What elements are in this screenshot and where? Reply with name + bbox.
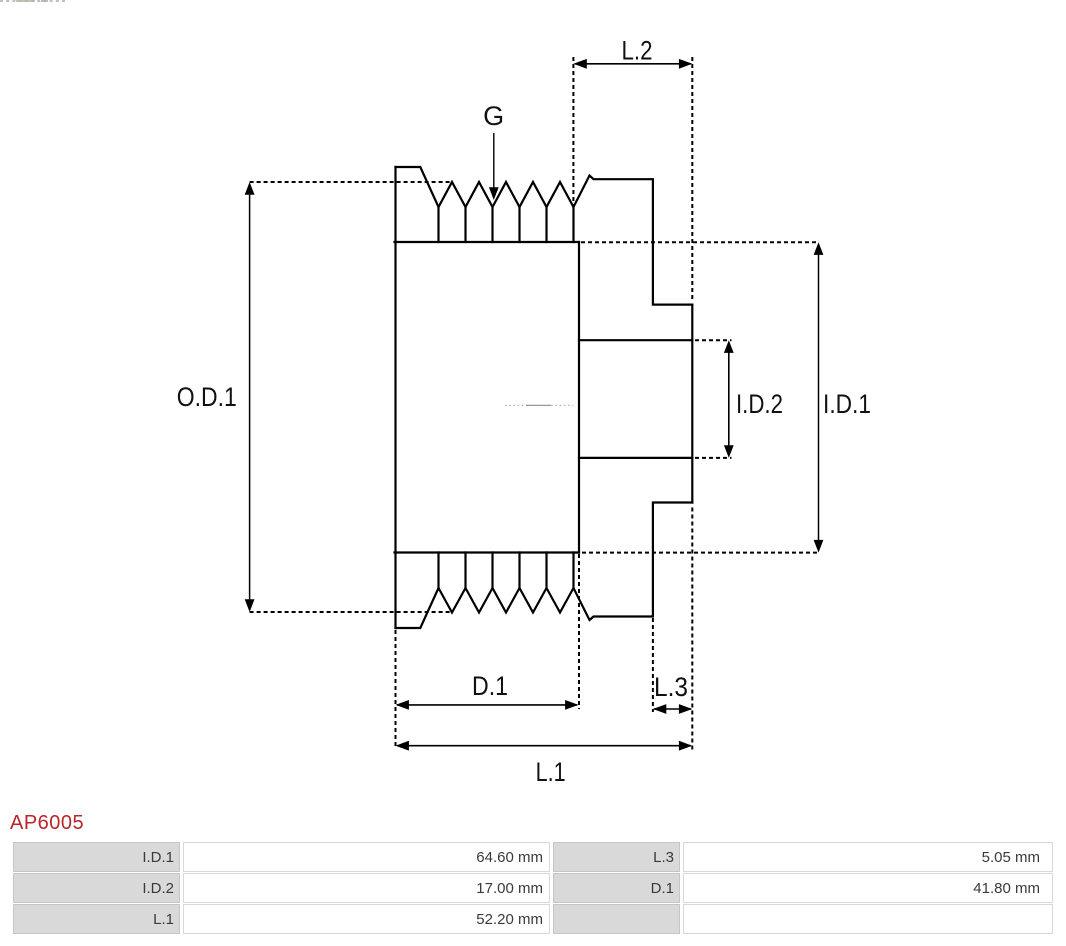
top-left crop artifact xyxy=(0,0,65,2)
specification table xyxy=(10,841,1056,935)
flange right edge xyxy=(691,305,693,503)
upper rib base line xyxy=(395,241,580,243)
svg-text:O.D.1: O.D.1 xyxy=(177,382,237,412)
bore I.D.2 bottom line xyxy=(579,457,692,459)
dimension I.D.1 xyxy=(575,242,871,552)
svg-text:L.3: L.3 xyxy=(654,672,688,702)
part number AP6005 xyxy=(10,811,84,835)
pulley lower profile with belt grooves xyxy=(396,503,693,629)
dimension O.D.1 xyxy=(177,182,452,612)
dimension L.3 xyxy=(653,618,692,714)
lower rib stems xyxy=(439,553,574,589)
svg-text:I.D.2: I.D.2 xyxy=(736,389,783,419)
pulley left edge xyxy=(394,167,396,628)
centerline of bore xyxy=(505,404,573,406)
dimension I.D.2 xyxy=(695,340,783,458)
svg-text:L.1: L.1 xyxy=(536,757,566,787)
svg-text:L.2: L.2 xyxy=(622,36,653,66)
svg-text:I.D.1: I.D.1 xyxy=(823,389,871,419)
body right edge xyxy=(578,242,580,553)
upper rib stems xyxy=(439,207,574,242)
dimension L.1 xyxy=(396,508,693,788)
dimension L.2 xyxy=(573,36,692,302)
bore I.D.2 top line xyxy=(579,339,692,341)
groove label G with leader arrow xyxy=(483,101,504,200)
dimension D.1 xyxy=(396,554,580,749)
svg-text:G: G xyxy=(483,101,504,131)
pulley upper profile with belt grooves xyxy=(396,167,693,305)
svg-text:D.1: D.1 xyxy=(472,671,508,701)
lower rib base line xyxy=(395,551,580,553)
